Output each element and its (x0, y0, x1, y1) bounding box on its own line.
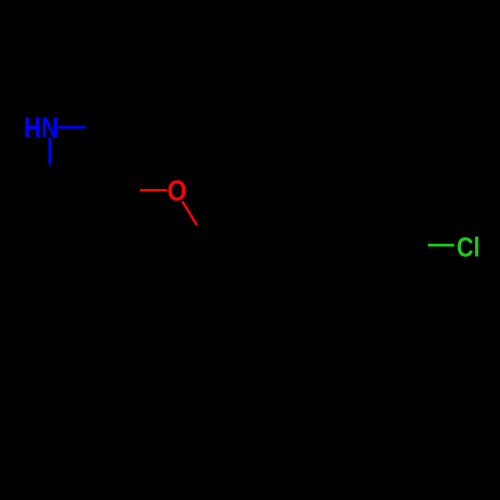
bond C-Cl (Cl half, green) (428, 244, 454, 247)
bond N1-C4 (azetidine, N half, blue) (48, 138, 51, 165)
bond N1-C2 (azetidine, N half, blue) (59, 126, 87, 129)
svg-text:HN: HN (24, 113, 59, 145)
bond O-CH (ether, O half, red, diagonal) (182, 201, 197, 225)
benzene ring and linker carbon skeleton (carbon-colored, black) (103, 190, 432, 317)
bond C-O (ether, O half, red, horizontal) (140, 189, 168, 192)
svg-text:Cl: Cl (457, 231, 480, 262)
azetidine ring carbon skeleton (carbon-colored halves, black) (50, 127, 123, 201)
